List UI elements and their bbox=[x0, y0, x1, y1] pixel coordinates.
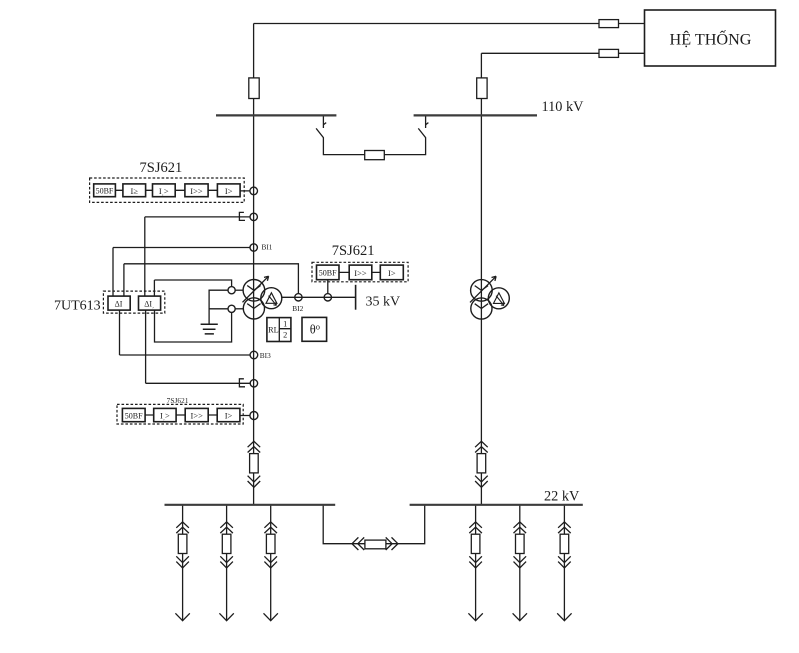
svg-text:50BF: 50BF bbox=[125, 411, 143, 420]
svg-text:22 kV: 22 kV bbox=[544, 489, 580, 505]
svg-text:50BF: 50BF bbox=[319, 269, 337, 278]
svg-text:RL: RL bbox=[268, 326, 279, 335]
svg-text:BI1: BI1 bbox=[262, 243, 273, 252]
svg-text:2: 2 bbox=[283, 331, 287, 340]
svg-text:I,>: I,> bbox=[159, 186, 169, 197]
svg-text:I>: I> bbox=[388, 268, 396, 278]
svg-text:I,>: I,> bbox=[160, 411, 170, 422]
svg-text:110 kV: 110 kV bbox=[542, 99, 585, 115]
svg-text:HỆ THỐNG: HỆ THỐNG bbox=[670, 29, 752, 48]
svg-text:I>: I> bbox=[225, 186, 233, 196]
svg-text:BI3: BI3 bbox=[260, 351, 271, 360]
svg-text:ΔI: ΔI bbox=[115, 300, 123, 309]
svg-text:I>: I> bbox=[225, 411, 233, 421]
svg-text:1: 1 bbox=[283, 319, 287, 328]
svg-text:I>>: I>> bbox=[354, 268, 367, 278]
svg-text:7SJ621: 7SJ621 bbox=[332, 243, 375, 259]
svg-text:7SJ621: 7SJ621 bbox=[140, 160, 183, 176]
svg-text:7SJ621: 7SJ621 bbox=[167, 397, 189, 405]
svg-text:7UT613: 7UT613 bbox=[54, 299, 101, 314]
svg-text:35 kV: 35 kV bbox=[366, 295, 401, 310]
svg-text:BI2: BI2 bbox=[292, 304, 303, 313]
svg-text:50BF: 50BF bbox=[96, 187, 114, 196]
svg-text:I>>: I>> bbox=[190, 186, 203, 196]
svg-text:I≥: I≥ bbox=[130, 186, 138, 196]
svg-text:I>>: I>> bbox=[190, 411, 203, 421]
